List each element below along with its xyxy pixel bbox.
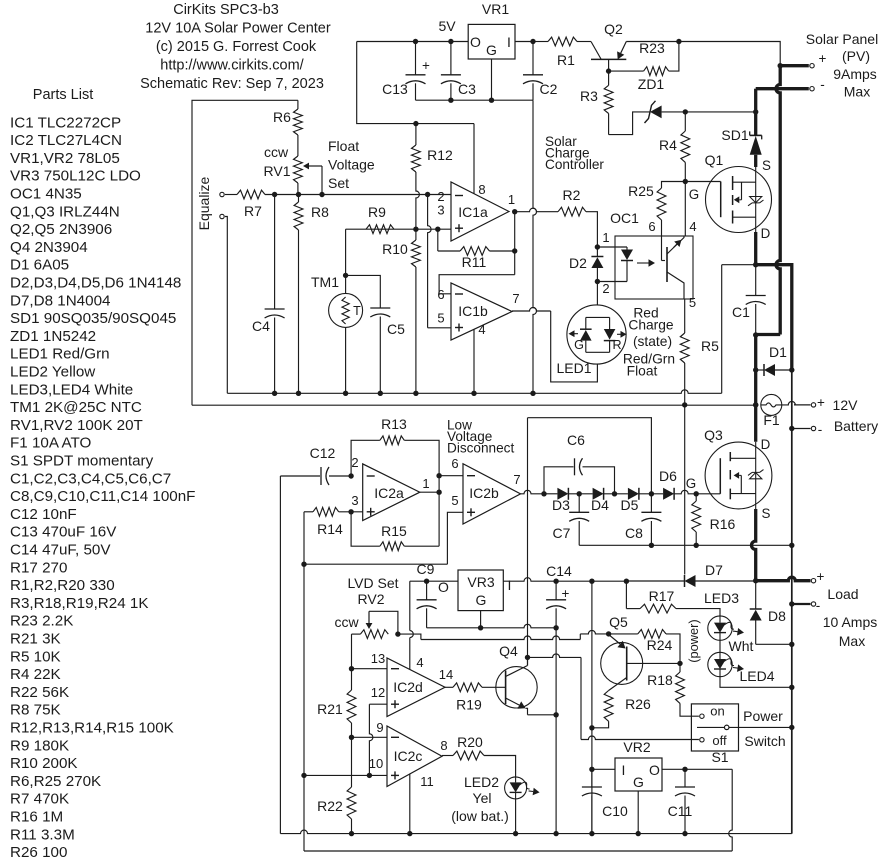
wire VR2 gnd [637, 791, 639, 834]
wire D2 to LED1 [596, 282, 598, 306]
svg-text:off: off [712, 733, 727, 748]
svg-text:I: I [508, 577, 512, 593]
svg-text:SD1 90SQ035/90SQ045: SD1 90SQ035/90SQ045 [10, 310, 176, 327]
diode D4 [568, 493, 592, 495]
node IC2a pin2 [348, 473, 353, 478]
svg-text:R5: R5 [701, 338, 719, 354]
zener ZD1 [608, 114, 610, 135]
svg-text:R12: R12 [427, 147, 453, 163]
wire VR3 left row [410, 580, 458, 582]
svg-text:5: 5 [451, 493, 458, 508]
node D2 top [595, 244, 600, 249]
svg-text:R26 100: R26 100 [10, 844, 67, 861]
svg-text:RV1: RV1 [264, 163, 291, 179]
wire IC1b pin4 [473, 329, 475, 393]
wire pin12 [369, 703, 387, 705]
resistor R23 [609, 70, 644, 72]
wire D7 row [626, 580, 684, 582]
capacitor C9 [426, 581, 428, 600]
svg-text:OC1: OC1 [610, 210, 639, 226]
svg-text:6: 6 [648, 219, 655, 234]
svg-text:R10: R10 [382, 241, 408, 257]
svg-text:LED1 Red/Grn: LED1 Red/Grn [10, 346, 110, 363]
svg-text:IC1a: IC1a [458, 204, 488, 220]
wire R14 col [303, 512, 305, 564]
svg-text:R8 75K: R8 75K [10, 702, 61, 719]
svg-text:D5: D5 [621, 497, 639, 513]
svg-text:R13: R13 [381, 416, 407, 432]
wire row pin3 [346, 228, 451, 230]
svg-text:G: G [574, 338, 584, 352]
wire OC1 pin4 [684, 182, 686, 237]
svg-text:LED1: LED1 [556, 360, 591, 376]
svg-text:+: + [422, 58, 430, 73]
svg-text:4: 4 [416, 655, 423, 670]
node ZD1 wire/PV- [753, 109, 758, 114]
svg-text:D6: D6 [659, 468, 677, 484]
opamp IC2a [363, 464, 420, 521]
node pin2 column [425, 192, 430, 197]
rail bottom [280, 830, 791, 833]
svg-text:R17: R17 [649, 588, 675, 604]
node pin9 [349, 735, 354, 740]
svg-text:(power): (power) [686, 619, 701, 662]
wire VR3 row cont [556, 580, 626, 582]
svg-text:Load: Load [827, 586, 858, 602]
svg-text:Switch: Switch [744, 733, 785, 749]
rail ground upper [227, 390, 721, 394]
wire LED2 gnd [515, 799, 517, 834]
opamp IC2b [463, 464, 521, 524]
thermistor TM1 [329, 293, 363, 327]
svg-text:Q5: Q5 [609, 614, 628, 630]
svg-text:D2: D2 [569, 255, 587, 271]
node R8 top [296, 192, 301, 197]
svg-text:RV2: RV2 [358, 591, 385, 607]
svg-text:ccw: ccw [334, 614, 359, 630]
led LED3 [708, 616, 732, 640]
svg-text:S: S [762, 506, 771, 521]
svg-text:G: G [633, 774, 644, 790]
node load plus [753, 578, 758, 583]
node Q5 emitter [606, 631, 611, 636]
svg-text:R9 180K: R9 180K [10, 737, 69, 754]
resistor R7 [237, 190, 265, 199]
svg-text:on: on [710, 704, 724, 719]
svg-text:Charge: Charge [628, 318, 674, 333]
svg-text:R24: R24 [647, 637, 673, 653]
node IC2b pin6 [436, 473, 441, 478]
resistor R17 [625, 581, 627, 609]
resistor R22 [351, 737, 353, 787]
svg-text:D2,D3,D4,D5,D6 1N4148: D2,D3,D4,D5,D6 1N4148 [10, 275, 181, 292]
svg-text:R9: R9 [368, 204, 386, 220]
svg-text:R21 3K: R21 3K [10, 631, 61, 648]
wire row 545 [579, 544, 792, 546]
svg-text:12V: 12V [833, 397, 859, 413]
resistor R10 [412, 240, 421, 267]
svg-text:C12 10nF: C12 10nF [10, 506, 77, 523]
svg-text:IC2d: IC2d [393, 679, 423, 695]
svg-text:C10: C10 [602, 803, 628, 819]
svg-text:1: 1 [508, 192, 515, 207]
resistor R18 [679, 663, 681, 672]
led LED2 [505, 777, 527, 799]
svg-text:-: - [820, 77, 825, 92]
svg-text:R5 10K: R5 10K [10, 648, 61, 665]
wire led4 out [720, 677, 792, 688]
svg-text:Q2,Q5 2N3906: Q2,Q5 2N3906 [10, 221, 112, 238]
svg-text:8: 8 [478, 182, 485, 197]
svg-text:Yel: Yel [473, 790, 492, 806]
wire to PV+ [679, 42, 780, 66]
schottky SD1 [750, 134, 762, 136]
opamp IC1b [451, 283, 512, 340]
svg-text:R4 22K: R4 22K [10, 666, 61, 683]
svg-text:R3,R18,R19,R24 1K: R3,R18,R19,R24 1K [10, 595, 148, 612]
svg-text:C5: C5 [387, 321, 405, 337]
node RV2 out [395, 631, 400, 636]
svg-text:R3: R3 [580, 88, 598, 104]
svg-text:Q3: Q3 [704, 427, 723, 443]
bus D1 to F1 [754, 370, 757, 442]
wire C12 left col [279, 476, 281, 834]
svg-text:CirKits SPC3-b3: CirKits SPC3-b3 [173, 2, 279, 18]
node Q5 base [677, 661, 682, 666]
svg-text:R20: R20 [457, 734, 483, 750]
svg-text:R16 1M: R16 1M [10, 809, 63, 826]
svg-text:Controller: Controller [545, 157, 604, 172]
resistor R3 [604, 85, 613, 113]
svg-text:I: I [507, 34, 511, 50]
junction rail [272, 391, 277, 396]
svg-text:C3: C3 [458, 81, 476, 97]
node diode row start [541, 491, 546, 496]
svg-text:9: 9 [376, 720, 383, 735]
svg-text:Q1: Q1 [705, 152, 724, 168]
svg-text:5: 5 [437, 311, 444, 326]
node D3/D4 [577, 491, 582, 496]
wire mid col bottom [303, 775, 305, 851]
svg-text:R15: R15 [381, 523, 407, 539]
svg-text:Parts List: Parts List [33, 87, 93, 103]
svg-text:C8: C8 [625, 525, 643, 541]
wire VR2 in [592, 768, 615, 770]
node S1/batt col [789, 725, 794, 730]
bus battery column [791, 370, 793, 834]
junction rail [343, 391, 348, 396]
wire RV2 row [398, 634, 421, 639]
switch S1 [691, 704, 738, 751]
svg-text:4: 4 [478, 322, 485, 337]
wire gnd col 556 [555, 628, 557, 834]
svg-text:R11: R11 [462, 254, 487, 270]
svg-text:VR1,VR2 78L05: VR1,VR2 78L05 [10, 150, 120, 167]
svg-text:C11: C11 [668, 803, 693, 819]
opamp IC2c [387, 726, 442, 787]
wire row pin2 [265, 194, 451, 196]
svg-text:LED3: LED3 [704, 590, 739, 606]
node C9 top [424, 579, 429, 584]
svg-text:-: - [818, 422, 823, 437]
node rail F1 [753, 402, 758, 407]
node R12 top [413, 121, 418, 126]
svg-text:TM1: TM1 [311, 274, 339, 290]
svg-text:R25: R25 [628, 183, 654, 199]
svg-text:TM1 2K@25C NTC: TM1 2K@25C NTC [10, 399, 142, 416]
svg-text:9Amps: 9Amps [833, 66, 877, 82]
svg-text:10: 10 [369, 756, 383, 771]
svg-text:F1: F1 [763, 412, 780, 428]
svg-text:C14: C14 [546, 563, 572, 579]
node VR2 gnd rail [636, 831, 641, 836]
svg-text:R22: R22 [317, 798, 343, 814]
svg-text:6: 6 [437, 287, 444, 302]
node C14 top [553, 579, 558, 584]
node R11 right [512, 248, 517, 253]
wire pin6 stub [439, 475, 463, 477]
node C14 bottom [553, 625, 558, 630]
capacitor C12 [280, 475, 320, 477]
wire 5V feed [357, 42, 474, 124]
wire upper loop [528, 418, 652, 494]
svg-text:D1: D1 [769, 344, 787, 360]
wire collector to S1 off [528, 654, 582, 658]
svg-text:Q4: Q4 [499, 643, 518, 659]
node R1 left [530, 39, 535, 44]
trimpot RV2 [352, 633, 361, 635]
resistor R11 [438, 250, 460, 252]
svg-text:LED3,LED4 White: LED3,LED4 White [10, 381, 133, 398]
svg-text:Schematic Rev: Sep 7, 2023: Schematic Rev: Sep 7, 2023 [140, 76, 324, 92]
wire S1 common [697, 726, 792, 728]
terminal Load- [811, 602, 815, 606]
svg-text:8: 8 [440, 738, 447, 753]
node D4/D5 [612, 491, 617, 496]
node F1 rail [753, 402, 758, 407]
svg-text:R6: R6 [273, 109, 291, 125]
resistor R16 [692, 501, 701, 532]
junction rail [530, 391, 535, 396]
node 591 col top [589, 579, 594, 584]
capacitor C10 [591, 769, 593, 787]
wire bottom outer row [304, 850, 732, 852]
opto pin5 [684, 299, 686, 333]
svg-text:Solar Panel: Solar Panel [806, 31, 878, 47]
svg-text:D4: D4 [591, 497, 609, 513]
svg-text:C12: C12 [310, 445, 336, 461]
diode D7 [685, 575, 696, 587]
node R11 tap [435, 227, 440, 232]
wire gate row Q3 [675, 490, 721, 493]
svg-text:LED2 Yellow: LED2 Yellow [10, 364, 95, 381]
bus Q1 drain [754, 232, 757, 265]
svg-text:D3: D3 [552, 497, 570, 513]
capacitor C6 [544, 467, 574, 494]
svg-text:D7,D8 1N4004: D7,D8 1N4004 [10, 292, 110, 309]
svg-text:G: G [689, 187, 699, 202]
wire drain row [722, 264, 756, 266]
wire to C5 [346, 275, 381, 308]
svg-text:R8: R8 [311, 204, 329, 220]
mosfet Q1 [706, 167, 772, 233]
node 591 rail [589, 831, 594, 836]
svg-text:LVD Set: LVD Set [347, 575, 398, 591]
svg-text:R14: R14 [317, 521, 343, 537]
svg-text:12V 10A Solar Power Center: 12V 10A Solar Power Center [145, 21, 331, 37]
wire ground rail caps [416, 99, 534, 101]
resistor R24 [609, 633, 638, 635]
svg-text:IC2 TLC27L4CN: IC2 TLC27L4CN [10, 132, 122, 149]
svg-text:Set: Set [328, 175, 349, 191]
wire pin13 stub [352, 668, 388, 670]
svg-text:R23: R23 [639, 40, 665, 56]
node R12/R10 [413, 227, 418, 232]
svg-text:5: 5 [689, 295, 696, 310]
svg-text:http://www.cirkits.com/: http://www.cirkits.com/ [160, 58, 304, 74]
diode D1 [756, 369, 764, 371]
svg-text:R12,R13,R14,R15 100K: R12,R13,R14,R15 100K [10, 720, 174, 737]
regulator VR2 [615, 758, 662, 791]
svg-text:R23 2.2K: R23 2.2K [10, 613, 73, 630]
node Q2 base/R23 [606, 68, 611, 73]
svg-text:R11 3.3M: R11 3.3M [10, 826, 75, 843]
svg-text:D8: D8 [768, 608, 786, 624]
svg-text:R21: R21 [317, 701, 343, 717]
capacitor C14 [555, 581, 557, 600]
svg-text:IC1 TLC2272CP: IC1 TLC2272CP [10, 114, 121, 131]
svg-text:RV1,RV2 100K 20T: RV1,RV2 100K 20T [10, 417, 143, 434]
resistor R19 [445, 686, 453, 688]
svg-text:Float: Float [328, 138, 359, 154]
svg-text:14: 14 [439, 667, 453, 682]
resistor R15 [438, 492, 440, 546]
svg-text:LED2: LED2 [464, 774, 499, 790]
opto pin1 [597, 246, 627, 248]
svg-text:G: G [486, 42, 497, 58]
node R23/PV wire [676, 39, 681, 44]
node R5 rail [682, 402, 687, 407]
wire IC2b out [521, 490, 545, 493]
wire RV2 left [351, 634, 353, 669]
svg-text:S1: S1 [711, 749, 728, 765]
junction rail [296, 391, 301, 396]
svg-text:D: D [761, 226, 771, 241]
svg-text:R7 470K: R7 470K [10, 791, 69, 808]
resistor R5 [680, 333, 689, 363]
wire R11 col [437, 229, 439, 251]
wire G row [427, 624, 556, 628]
svg-text:IC2a: IC2a [374, 485, 404, 501]
junction rail [378, 391, 383, 396]
terminal Load+ [811, 579, 815, 583]
bus SD1 to Q1 [754, 155, 757, 167]
wire pin2 col to pin5 [428, 195, 432, 328]
svg-text:G: G [686, 476, 696, 491]
svg-text:Q2: Q2 [604, 21, 623, 37]
svg-text:2: 2 [602, 281, 609, 296]
wire row564 to pin5 [304, 563, 447, 565]
svg-text:Max: Max [844, 84, 870, 100]
node drain/C1 [753, 262, 758, 267]
resistor R12 [412, 145, 421, 172]
resistor R6 [294, 109, 303, 135]
wire TM1 column [345, 229, 347, 293]
node R7/C4 [272, 192, 277, 197]
capacitor C13 [415, 42, 417, 75]
svg-text:R4: R4 [659, 137, 677, 153]
svg-text:R16: R16 [710, 516, 736, 532]
diode D6 [639, 493, 663, 495]
bus to D1 [754, 335, 757, 370]
svg-text:T: T [353, 304, 361, 318]
node D1 right [789, 367, 794, 372]
wire pin9 stub [352, 736, 388, 738]
regulator VR1 [468, 24, 515, 59]
wire IC2c pin11 [409, 774, 411, 834]
svg-text:+: + [819, 51, 827, 66]
diode D3 [544, 493, 557, 495]
svg-text:VR3: VR3 [467, 574, 494, 590]
terminal Equalize lower [220, 214, 224, 218]
resistor R20 [442, 755, 453, 757]
opamp IC2d [387, 658, 445, 717]
wire IC1a out col [514, 212, 516, 275]
svg-text:Voltage: Voltage [328, 157, 375, 173]
svg-text:F1 10A ATO: F1 10A ATO [10, 435, 92, 452]
bus Q3 source [752, 509, 756, 581]
svg-text:D7: D7 [705, 562, 723, 578]
bus PV+ down [776, 66, 780, 335]
node IC1a out [512, 209, 517, 214]
node IC2a out [436, 490, 441, 495]
wire 591 col [591, 581, 593, 833]
node mid col [301, 562, 306, 567]
node C13 top [413, 39, 418, 44]
resistor R2 [515, 208, 558, 211]
node VR1 G [489, 98, 494, 103]
wire 5V rail [357, 41, 469, 43]
svg-text:C8,C9,C10,C11,C14 100nF: C8,C9,C10,C11,C14 100nF [10, 488, 195, 505]
node row545/battery col [789, 543, 794, 548]
terminal Equalize upper [220, 192, 224, 196]
svg-text:2: 2 [351, 455, 358, 470]
svg-text:Float: Float [627, 364, 658, 379]
svg-text:IC1b: IC1b [458, 303, 488, 319]
svg-text:C13: C13 [382, 81, 408, 97]
svg-text:R6,R25 270K: R6,R25 270K [10, 773, 101, 790]
svg-text:3: 3 [351, 493, 358, 508]
node R16 bottom [694, 543, 699, 548]
svg-text:R1: R1 [557, 52, 575, 68]
svg-text:Q1,Q3 IRLZ44N: Q1,Q3 IRLZ44N [10, 203, 120, 220]
node IC2a pin3 [348, 509, 353, 514]
svg-text:IC2b: IC2b [469, 485, 499, 501]
svg-text:LED4: LED4 [739, 668, 774, 684]
diode D2 [596, 247, 598, 257]
svg-text:D1 6A05: D1 6A05 [10, 257, 69, 274]
wire mid col down [303, 564, 305, 775]
svg-text:R2: R2 [563, 187, 581, 203]
bus PV- down [754, 89, 757, 136]
node C11 top [682, 767, 687, 772]
wire fb loop to pin6 [439, 275, 515, 294]
node C11 rail [682, 831, 687, 836]
node D5/D6 [649, 491, 654, 496]
svg-text:G: G [476, 592, 487, 608]
node D1 left [753, 367, 758, 372]
svg-text:OC1 4N35: OC1 4N35 [10, 186, 82, 203]
